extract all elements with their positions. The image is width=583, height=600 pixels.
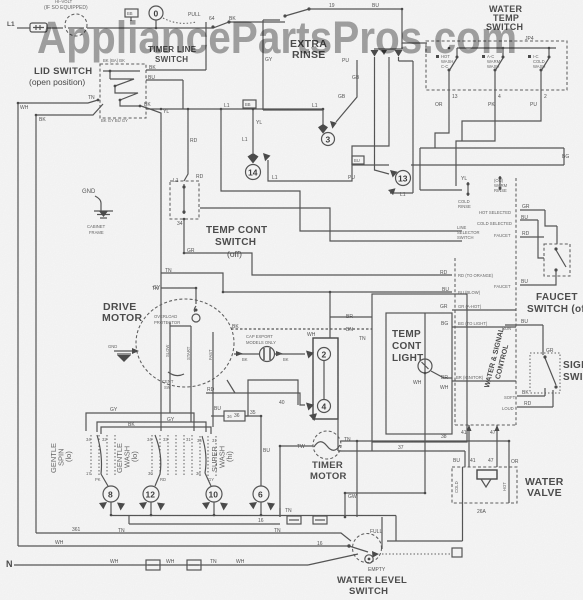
bus component box 1 (287, 516, 301, 524)
control box to valve leads (469, 425, 497, 467)
arrow into node2 (306, 351, 314, 359)
timer line switch lever (163, 18, 196, 23)
wire rinse top to connector (309, 9, 427, 43)
wire light box left ext (371, 442, 373, 451)
valve cold lead (462, 467, 464, 503)
N line (14, 564, 308, 566)
wire PK staircase (456, 96, 495, 186)
water signal control dashed left (454, 258, 456, 425)
wire OR staircase (435, 96, 449, 148)
WLS lever (349, 546, 368, 552)
wire fuse to noise filter (47, 27, 63, 29)
wire row y165 to right (411, 164, 564, 166)
WLS dotted out (382, 553, 452, 555)
N component box 2 (187, 560, 201, 570)
svg-text:AppliancePartsPros.com: AppliancePartsPros.com (37, 12, 517, 63)
motor top stem (194, 288, 196, 312)
wire node2-node4 link (323, 361, 325, 400)
node 2 circle (318, 348, 331, 361)
label RD motor out (227, 380, 235, 393)
WLS to N diagonal (308, 554, 358, 565)
wire y493 row (345, 493, 426, 517)
wire node14 stem YL (252, 109, 254, 153)
arrows into node3 (318, 121, 337, 134)
wire box to circle6 (245, 416, 261, 486)
wire lid switch to top BK (146, 22, 206, 70)
signal lever (545, 358, 556, 385)
water temp switch box (426, 41, 567, 90)
junction lid switch lower (97, 99, 100, 102)
temp cont light outer box (372, 294, 467, 442)
wts group1 (436, 55, 439, 58)
wire box bottom out (338, 419, 465, 467)
contact column right (200, 436, 216, 477)
wire LOUD RD (517, 390, 553, 407)
lamp to box edge WH (431, 371, 452, 378)
motor windings (170, 322, 213, 386)
wire BG row y148 (420, 148, 564, 165)
faucet switch box (544, 244, 570, 276)
contact column left (91, 435, 115, 477)
wire row TN y274 (161, 273, 452, 292)
wire GB to node3 (336, 60, 357, 122)
arrow node14 right (263, 153, 271, 161)
wire SOFT BK (517, 388, 545, 396)
faucet stem (520, 270, 556, 285)
wire RD row to circle4 (206, 393, 305, 405)
wire box top riser (330, 292, 372, 338)
selector contact cold rinse (467, 182, 469, 196)
wire riser x357 (356, 441, 358, 517)
lever left (97, 435, 102, 474)
wire BU cold selected (520, 220, 544, 258)
N component box 1 (146, 560, 160, 570)
node 13 circle (396, 171, 411, 186)
lid switch contacts (103, 71, 141, 106)
wire L1 entry (17, 27, 30, 29)
wire RD faucet (520, 236, 544, 238)
water valve dashed box (452, 467, 517, 503)
wire temp cont out GR (184, 219, 452, 275)
label COLD vertical (454, 481, 459, 493)
label WATER & SIGNAL CONTROL rotated (482, 326, 514, 391)
arrow into node14 (248, 153, 259, 164)
wire GB branch (352, 57, 389, 165)
label SUPER WASH (hi) (210, 446, 234, 472)
wire GR hot selected (520, 210, 557, 244)
water signal control dashed bottom (455, 424, 516, 426)
wire row GY y291 (161, 287, 196, 289)
winding labels (165, 345, 170, 357)
bus y533 (36, 533, 351, 541)
centrifugal switch (168, 372, 184, 376)
wire BU run out (505, 325, 543, 355)
wire motor BK dashed row (231, 328, 372, 330)
water signal control dashed right (515, 178, 517, 425)
wire node3 stem (322, 109, 324, 125)
capacitor to node2 (275, 353, 305, 355)
connector arrows (371, 50, 403, 57)
wire timer motor right y441 (341, 441, 509, 467)
wire GR A-HOT (452, 309, 516, 311)
timer motor coil (314, 442, 340, 451)
bus component box 2 (313, 516, 327, 524)
node 14 circle (246, 165, 261, 180)
bus y546 (18, 545, 350, 547)
motor bottom exits (170, 370, 213, 427)
motor right lead to capacitor (234, 353, 259, 355)
valve solenoid coil (477, 470, 497, 479)
valve hot lead (508, 467, 510, 503)
node 6 (253, 486, 269, 502)
signal switch box (530, 353, 560, 393)
wts group2 (482, 55, 485, 58)
label (BB) box (125, 9, 138, 17)
node 0 circle (149, 6, 163, 20)
lamp stem (424, 313, 426, 359)
wash feed row 2 (97, 422, 206, 432)
temp cont light inner box (386, 313, 452, 434)
wire lid sw to left trunk WH (18, 100, 98, 546)
overload protector dots (192, 314, 200, 322)
node 2/4 box (313, 338, 338, 419)
wash feed row BK (101, 427, 211, 434)
wire timer motor left (280, 446, 313, 517)
wire x420 drop (420, 148, 462, 190)
selector contact warm rinse (499, 176, 501, 190)
wire trunk to temp cont switch (184, 109, 188, 181)
node 8 (103, 486, 119, 502)
label HOT vertical (502, 482, 507, 491)
fuse F1 (30, 23, 47, 32)
node 4 circle (318, 400, 331, 413)
wire lid sw diag to YL trunk (141, 106, 161, 431)
wire lid switch BU branch (146, 80, 183, 109)
wire node0 stem (155, 20, 157, 28)
wire row y191 staircase (221, 109, 462, 231)
lever mid (155, 435, 161, 474)
label BU box (352, 156, 364, 164)
node 3 circle (322, 133, 335, 146)
label GENTLE WASH (lo) (115, 443, 139, 473)
valve bottom lead (387, 503, 463, 541)
wire node14 right to node13 (268, 160, 389, 181)
wire trunk L1 row y109 (146, 108, 323, 110)
wire BU vertical (390, 57, 413, 193)
wire BR IGNITION (452, 380, 516, 382)
wire lamp bottom long (424, 373, 426, 493)
wire PU vertical to node13 (375, 57, 390, 174)
arrow into node4 (306, 403, 314, 411)
feeders to circles (101, 473, 211, 486)
wire node13 bottom feed (390, 190, 391, 193)
arrow below node4 (309, 413, 317, 421)
contact column mid (152, 435, 192, 477)
timer motor dashed circle (313, 431, 341, 459)
arrows into node13 (388, 170, 398, 195)
wire PU staircase (462, 96, 541, 141)
wash feed row GY (86, 413, 194, 431)
wts group3 (528, 55, 531, 58)
extra rinse lever (285, 9, 309, 16)
drive motor dashed circle (136, 299, 234, 387)
wire box to SUPER col (211, 415, 224, 417)
wire lid sw to inner trunk BK (36, 104, 103, 533)
wire riser x280 (279, 508, 281, 517)
wts internal bus (457, 47, 556, 49)
wire row y208 staircase (200, 208, 462, 241)
wire filter to timer line switch (87, 22, 285, 28)
WLS out box (452, 548, 462, 557)
wire bracket via x248 (245, 380, 298, 416)
motor ground (114, 350, 137, 352)
temp cont switch box (170, 181, 199, 219)
node 10 (206, 486, 222, 502)
temp cont switch contact (183, 184, 185, 214)
wire BG TO LIGHT (452, 326, 516, 328)
WLS feed rect right (395, 516, 397, 542)
lever right (202, 436, 206, 473)
extra rinse switch box (263, 20, 323, 110)
lamp bulb (418, 359, 432, 373)
node 12 (143, 486, 159, 502)
noise filter (if so equipped) (65, 14, 87, 36)
faucet lever (556, 250, 566, 267)
bus y515 (111, 515, 396, 517)
box 36 BU (224, 411, 245, 421)
label GENTLE SPIN (lo) (49, 443, 73, 473)
bus y524 (129, 516, 280, 525)
water level switch circle (353, 534, 382, 563)
lid switch box (100, 64, 146, 118)
capacitor C1 (260, 347, 275, 362)
